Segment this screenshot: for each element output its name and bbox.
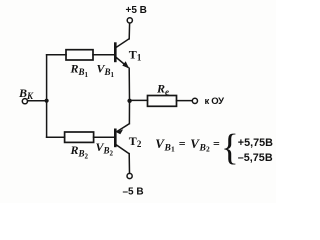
svg-text:к ОУ: к ОУ xyxy=(205,96,225,107)
svg-text:–5,75В: –5,75В xyxy=(238,152,273,164)
svg-text:RB2: RB2 xyxy=(70,143,89,161)
svg-text:VB2: VB2 xyxy=(96,140,114,158)
svg-text:+5 В: +5 В xyxy=(126,5,147,16)
svg-text:T1: T1 xyxy=(129,48,142,63)
svg-text:{: { xyxy=(221,128,239,169)
svg-text:=: = xyxy=(213,136,220,150)
svg-text:Re: Re xyxy=(156,82,169,98)
svg-text:RB1: RB1 xyxy=(70,62,89,80)
svg-text:BK: BK xyxy=(18,86,34,101)
svg-text:=: = xyxy=(179,136,186,150)
svg-text:+5,75В: +5,75В xyxy=(238,137,273,149)
svg-text:–5 В: –5 В xyxy=(123,187,144,198)
svg-text:T2: T2 xyxy=(129,134,142,149)
svg-text:1: 1 xyxy=(171,145,175,154)
svg-text:2: 2 xyxy=(206,145,210,154)
svg-text:B: B xyxy=(199,144,206,154)
svg-text:B: B xyxy=(164,144,171,154)
svg-text:VB1: VB1 xyxy=(97,62,115,80)
